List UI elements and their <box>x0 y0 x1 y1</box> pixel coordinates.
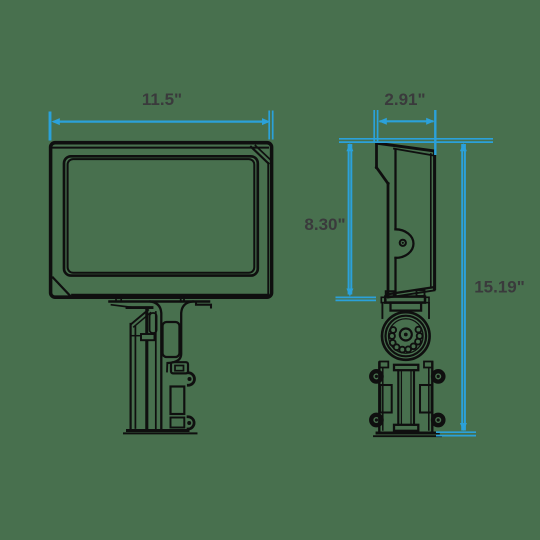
front bracket narrow slot <box>150 313 157 333</box>
front view top lip line <box>53 147 268 149</box>
slip fitter bolt top-right <box>433 371 443 381</box>
knuckle hub <box>400 329 412 341</box>
dim 11.5 left extension line <box>49 112 52 141</box>
front view bottom lip line <box>72 294 268 296</box>
slip fitter bolt bottom-left <box>371 415 381 425</box>
front bracket top plate <box>110 300 210 303</box>
knuckle mid circle <box>386 316 427 357</box>
side view top edge <box>377 143 435 151</box>
dim 8.30 arrows <box>346 143 353 151</box>
slip fitter bottom plate <box>394 425 418 431</box>
side mount plate 1 right tab <box>425 297 429 302</box>
side view left chamfer <box>377 168 389 184</box>
side mount plate 1 left tab <box>381 297 385 302</box>
side mount left nut <box>386 291 394 296</box>
dim 15.19 lines <box>461 144 463 431</box>
slip fitter bolt top-left <box>371 371 381 381</box>
side view bottom edge outer <box>387 287 435 294</box>
front bracket top bolt knob <box>188 373 194 385</box>
front view top-right corner diagonal 2 <box>256 146 271 160</box>
side mount plate 2 <box>391 303 422 311</box>
front view lens outer rect <box>64 156 258 275</box>
slip fitter bottom line thick <box>377 432 438 435</box>
front bracket plate right step <box>196 302 211 308</box>
side view hinge screw <box>400 240 406 246</box>
front bracket bottom bolt dot <box>187 421 191 425</box>
side view left edge upper <box>375 143 378 167</box>
front bracket stem left vertical pair <box>155 312 157 430</box>
dim 11.5 right extension lines <box>268 111 270 140</box>
dim 2.91 right extension line <box>434 110 436 155</box>
svg-text:15.19": 15.19" <box>474 278 525 297</box>
slip fitter shank right inner <box>410 370 412 425</box>
svg-text:11.5": 11.5" <box>142 90 182 109</box>
slip fitter shank right <box>413 370 415 425</box>
front bracket clamp outer plate <box>171 362 188 373</box>
front view lens inner rect <box>68 159 255 273</box>
front bracket baseline thick <box>128 429 189 432</box>
front bracket left outer vertical <box>130 324 132 430</box>
side view bottom edge inner <box>388 290 435 297</box>
svg-text:8.30": 8.30" <box>304 215 345 234</box>
front bracket baseline thin <box>124 432 197 434</box>
front bracket bottom bolt knob <box>188 417 194 429</box>
side view inner front vertical upper <box>394 150 396 230</box>
slip fitter right rail inner line <box>428 368 430 430</box>
side mount plate 1 <box>385 297 425 303</box>
front bracket small clamp block <box>141 334 155 340</box>
front bracket shoulder slope line <box>112 305 134 308</box>
dim 2.91 line <box>380 120 434 122</box>
slip fitter right rail <box>431 363 433 433</box>
slip fitter shank left <box>397 370 399 425</box>
dim 15.19 arrows <box>460 143 467 151</box>
knuckle hub dot <box>404 333 408 337</box>
slip fitter right side plate <box>420 385 432 413</box>
front view right inner edge line <box>267 163 269 295</box>
front bracket clamp inner plate <box>175 366 184 371</box>
dim 11.5 line <box>54 120 269 122</box>
slip fitter bottom line thin <box>374 435 441 437</box>
front bracket thick shoulder line <box>127 306 152 309</box>
front view bottom-left corner diagonal <box>53 278 71 297</box>
front bracket left inner vertical <box>134 327 136 429</box>
front bracket stem slot <box>163 322 180 357</box>
front bracket clamp left notch <box>166 363 168 372</box>
side view right inner vertical <box>430 154 432 287</box>
side view hinge arc <box>396 229 414 258</box>
front bracket middle rect <box>171 387 185 415</box>
front bracket strut diagonal inner <box>134 313 151 327</box>
slip fitter bolt bottom-right <box>433 415 443 425</box>
knuckle yoke right tick <box>428 303 430 318</box>
slip fitter shank left inner <box>400 370 402 425</box>
knuckle teeth <box>389 327 422 353</box>
front bracket plate left notch <box>116 298 121 301</box>
side mount right nut <box>417 290 425 296</box>
dim 11.5 arrows <box>52 118 60 125</box>
front view top-right corner diagonal 1 <box>251 147 269 164</box>
knuckle inner ring arc <box>389 319 424 354</box>
side view hinge screw dot <box>402 242 404 244</box>
dim 8.30 bottom extension lines <box>336 296 377 298</box>
front bracket stem left with fillet <box>151 302 162 429</box>
side view left edge lower <box>387 184 390 295</box>
dim 2.91 arrows <box>379 118 387 125</box>
slip fitter left rail inner line <box>382 368 384 430</box>
front bracket bottom plate <box>171 418 185 428</box>
slip fitter left rail <box>378 363 380 433</box>
top shared extension lines <box>339 138 493 140</box>
side view top inner lip <box>394 149 434 156</box>
front bracket stem right with fillet <box>168 302 193 364</box>
front view housing outer frame <box>51 143 272 298</box>
dim 2.91 left extension lines <box>373 110 375 143</box>
front bracket top bolt dot <box>188 377 192 381</box>
slip fitter left top tab <box>380 362 389 368</box>
front bracket strut diagonal outer <box>131 310 148 324</box>
svg-text:2.91": 2.91" <box>384 90 425 109</box>
slip fitter top plate <box>394 365 418 370</box>
knuckle outer circle <box>382 312 430 360</box>
dim 8.30 lines <box>348 144 350 295</box>
front bracket cable entry ticks <box>181 298 184 302</box>
front bracket main thick vertical <box>145 310 148 431</box>
slip fitter left side plate <box>380 385 391 413</box>
side view inner front vertical lower <box>394 258 396 296</box>
slip fitter right top tab <box>424 362 433 368</box>
knuckle yoke left tick <box>381 303 383 318</box>
side view right edge <box>433 151 436 289</box>
front bracket block tick <box>131 335 141 337</box>
dim 15.19 bottom extension lines <box>436 431 476 433</box>
